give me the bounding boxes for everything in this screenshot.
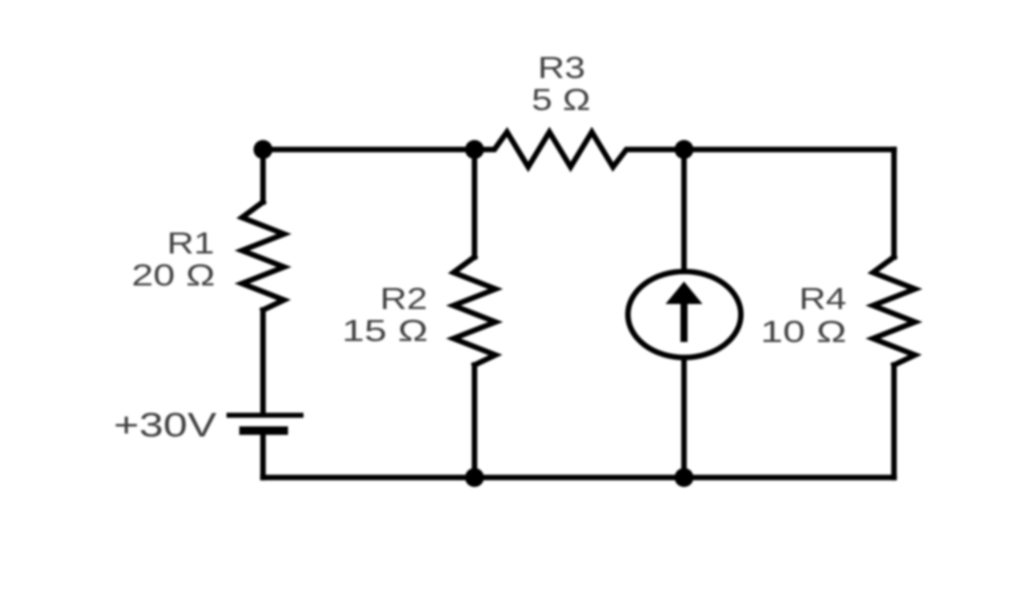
svg-text:R1: R1: [167, 226, 215, 260]
svg-text:15 Ω: 15 Ω: [342, 313, 428, 347]
current source I1 arrow shaft: [681, 302, 688, 342]
current source I1 arrow head: [666, 282, 703, 305]
svg-text:R3: R3: [538, 51, 586, 85]
svg-text:R4: R4: [799, 282, 847, 316]
wire bottom-right corner to bottom node E: [684, 475, 894, 481]
current source I1 circle: [628, 272, 741, 358]
resistor R3 (5 ohm) with leads between node B and node C: [475, 132, 685, 167]
wire top node A to node B: [263, 147, 475, 153]
wire node B down to R2: [472, 150, 478, 258]
battery V1 negative plate (short thick): [239, 426, 288, 435]
svg-text:20 Ω: 20 Ω: [132, 259, 215, 293]
wire top-right corner down to R4: [891, 150, 897, 258]
resistor R4 (10 ohm): [873, 257, 915, 365]
node dot top-middle (node B): [465, 140, 484, 159]
resistor R1 (20 ohm): [242, 202, 284, 310]
wire node A down to R1: [260, 150, 266, 203]
node dot bottom-right (node E): [675, 468, 694, 487]
svg-text:+30V: +30V: [114, 407, 217, 444]
svg-text:5 Ω: 5 Ω: [532, 83, 591, 117]
wire R2 to bottom node D: [472, 365, 478, 478]
wire battery negative plate to bottom-left corner: [260, 433, 266, 478]
resistor R2 (15 ohm): [454, 257, 496, 365]
svg-text:10 Ω: 10 Ω: [760, 314, 846, 348]
node dot top-left (node A): [254, 140, 273, 159]
node dot bottom-middle (node D): [465, 468, 484, 487]
wire bottom node D to bottom-left corner: [263, 475, 475, 481]
wire node C down to current source: [681, 150, 687, 272]
svg-text:R2: R2: [380, 282, 428, 316]
wire node C to top-right corner: [684, 147, 894, 153]
wire current source to bottom node E: [681, 358, 687, 478]
wire R4 to bottom-right corner: [891, 365, 897, 478]
node dot top-right of R3 (node C): [675, 140, 694, 159]
wire R1 to battery positive plate: [260, 310, 266, 413]
wire bottom node E to bottom node D: [475, 475, 685, 481]
battery V1 positive plate (long): [227, 413, 304, 418]
